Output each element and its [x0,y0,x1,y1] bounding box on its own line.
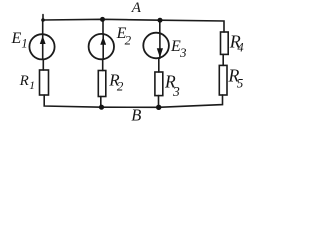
svg-text:5: 5 [237,76,244,91]
svg-text:3: 3 [179,45,187,60]
svg-text:2: 2 [125,32,132,47]
svg-text:2: 2 [117,79,124,94]
svg-text:R: R [19,73,29,89]
svg-text:E: E [11,30,22,47]
svg-text:3: 3 [172,84,180,99]
svg-text:1: 1 [29,80,35,92]
svg-text:1: 1 [21,36,27,50]
svg-text:4: 4 [237,41,243,55]
svg-text:B: B [131,106,141,123]
svg-text:A: A [131,0,142,16]
